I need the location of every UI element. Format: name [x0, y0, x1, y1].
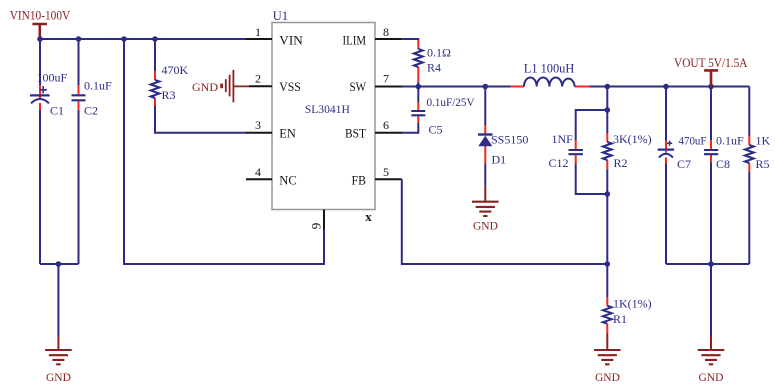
- resistor R5: [745, 136, 754, 172]
- wire FB net: [402, 179, 608, 264]
- svg-text:R3: R3: [162, 88, 176, 102]
- svg-text:1: 1: [255, 25, 261, 39]
- node junction C12 top branch: [605, 107, 611, 113]
- wire output bottom rail: [666, 263, 749, 265]
- diode D1: [478, 125, 493, 164]
- pin 2 stub: [249, 85, 272, 87]
- ground GND symbol right: [698, 336, 725, 384]
- svg-text:EN: EN: [279, 127, 296, 141]
- svg-text:ILIM: ILIM: [343, 33, 367, 47]
- svg-text:4: 4: [255, 165, 261, 179]
- svg-text:VIN10-100V: VIN10-100V: [10, 7, 71, 22]
- pin 4 stub: [246, 178, 272, 180]
- node junction C12 bottom: [605, 191, 611, 197]
- wire EN-net riser and bottom run to pin9: [124, 39, 324, 264]
- wire R5 column: [748, 87, 750, 265]
- pin 5 stub: [375, 178, 402, 180]
- resistor R2: [603, 133, 612, 169]
- wire C12 branch: [576, 87, 608, 195]
- resistor R1: [603, 297, 612, 333]
- resistor R4: [414, 40, 423, 87]
- op-amp U1 IC body: [272, 23, 375, 210]
- wire R2 column: [606, 110, 608, 264]
- svg-text:0.1uF: 0.1uF: [84, 79, 112, 93]
- wire GND drop right: [710, 264, 712, 336]
- svg-text:L1 100uH: L1 100uH: [524, 61, 575, 75]
- svg-text:1K: 1K: [756, 134, 771, 148]
- svg-text:VIN: VIN: [279, 33, 303, 47]
- node junction D1: [483, 84, 489, 90]
- svg-text:D1: D1: [492, 153, 507, 167]
- wire ILIM to R4: [402, 39, 419, 41]
- svg-text:GND: GND: [699, 372, 724, 384]
- svg-text:100uF: 100uF: [37, 71, 68, 85]
- svg-text:0.1uF/25V: 0.1uF/25V: [427, 95, 475, 109]
- svg-text:GND: GND: [595, 372, 620, 384]
- ground GND symbol left: [45, 336, 72, 384]
- node junction R2 branch: [605, 84, 611, 90]
- svg-text:5: 5: [383, 165, 389, 179]
- svg-text:C5: C5: [429, 123, 443, 137]
- svg-text:C8: C8: [716, 157, 730, 171]
- svg-text:SL3041H: SL3041H: [305, 102, 350, 116]
- svg-text:2: 2: [255, 72, 261, 86]
- svg-text:VSS: VSS: [279, 80, 301, 94]
- capacitor C12: [569, 140, 583, 164]
- svg-text:C2: C2: [84, 104, 98, 118]
- svg-text:0.1Ω: 0.1Ω: [427, 46, 451, 60]
- svg-text:C1: C1: [50, 104, 64, 118]
- capacitor C2: [72, 85, 86, 110]
- ground GND symbol below D1: [472, 186, 499, 233]
- svg-text:U1: U1: [273, 9, 288, 23]
- node junction FB/R1: [605, 261, 611, 267]
- node junction C2: [76, 36, 82, 42]
- svg-text:7: 7: [383, 72, 389, 86]
- svg-text:NC: NC: [279, 173, 297, 187]
- pin 1 stub: [246, 38, 272, 40]
- svg-text:3K(1%): 3K(1%): [613, 132, 652, 146]
- svg-text:8: 8: [383, 25, 389, 39]
- capacitor C8: [704, 140, 718, 163]
- inductor L1: [511, 77, 590, 86]
- capacitor C1: [30, 85, 50, 110]
- node junction C1/C2 ground: [56, 261, 62, 267]
- node junction R3: [152, 36, 158, 42]
- node junction R4/SW: [416, 84, 422, 90]
- svg-text:R4: R4: [427, 61, 441, 75]
- svg-text:470K: 470K: [162, 63, 189, 77]
- svg-text:1K(1%): 1K(1%): [613, 297, 652, 311]
- svg-text:0.1uF: 0.1uF: [716, 134, 744, 148]
- svg-text:R1: R1: [613, 312, 627, 326]
- wire C2 column: [78, 39, 80, 264]
- pin 8 stub: [375, 38, 402, 40]
- pin 7 stub: [375, 86, 402, 88]
- svg-text:x: x: [365, 209, 372, 224]
- wire top rail: [40, 38, 246, 40]
- node junction C8/VOUT: [708, 84, 714, 90]
- svg-text:R2: R2: [614, 156, 628, 170]
- svg-text:1NF: 1NF: [552, 132, 574, 146]
- ground GND symbol below R1: [594, 333, 621, 384]
- svg-text:GND: GND: [473, 221, 498, 233]
- capacitor C5: [411, 102, 425, 123]
- svg-text:R5: R5: [756, 157, 770, 171]
- wire R3 column: [155, 39, 246, 133]
- svg-text:6: 6: [383, 118, 389, 132]
- wire GND drop left: [57, 264, 59, 336]
- wire C7 column: [665, 87, 667, 265]
- wire C1 column: [39, 39, 41, 264]
- resistor R3: [151, 71, 160, 106]
- svg-text:VOUT 5V/1.5A: VOUT 5V/1.5A: [674, 56, 748, 70]
- capacitor C7: [658, 141, 674, 164]
- node junction C8 bottom: [708, 261, 714, 267]
- wire SW rail to VOUT corner: [402, 86, 749, 88]
- svg-text:SW: SW: [350, 80, 367, 94]
- power VOUT bar symbol: [704, 70, 718, 86]
- pin 3 stub: [246, 132, 272, 134]
- wire C1-C2 bottom rail: [40, 263, 79, 265]
- wire C8 column: [710, 87, 712, 265]
- node junction C7: [663, 84, 669, 90]
- wire C5 column: [402, 87, 418, 133]
- svg-text:9: 9: [308, 223, 323, 230]
- wire R1 column: [606, 264, 608, 297]
- ground GND symbol at VSS pin: [192, 70, 249, 102]
- node junction EN-net riser: [121, 36, 127, 42]
- svg-text:GND: GND: [192, 80, 218, 94]
- svg-text:C7: C7: [677, 157, 691, 171]
- svg-text:3: 3: [255, 118, 261, 132]
- pin 9 stub: [323, 210, 325, 230]
- svg-text:GND: GND: [46, 372, 71, 384]
- power VIN bar symbol: [32, 24, 47, 39]
- svg-text:SS5150: SS5150: [491, 133, 528, 147]
- wire D1 column: [484, 87, 486, 187]
- svg-text:FB: FB: [352, 173, 367, 187]
- svg-text:BST: BST: [345, 127, 366, 141]
- node junction VIN/C1: [37, 36, 43, 42]
- svg-text:470uF: 470uF: [679, 134, 707, 148]
- svg-text:C12: C12: [549, 156, 569, 170]
- pin 6 stub: [375, 132, 402, 134]
